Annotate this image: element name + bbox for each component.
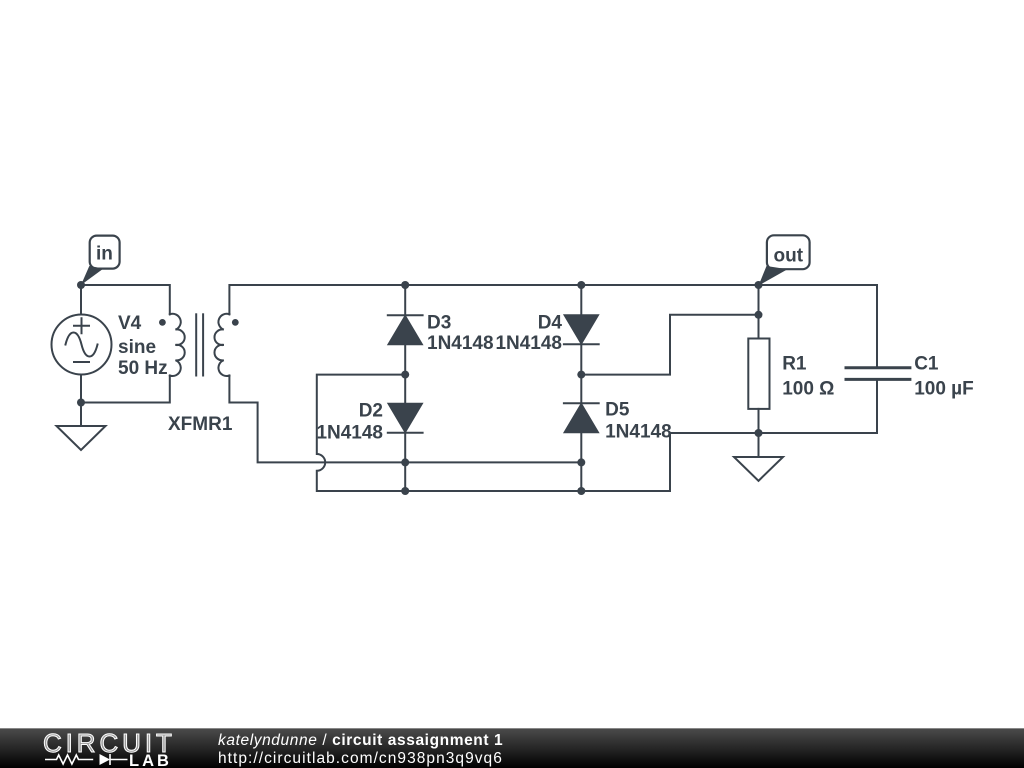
svg-text:LAB: LAB [129, 752, 172, 768]
svg-text:D3: D3 [427, 312, 451, 333]
svg-text:D4: D4 [538, 312, 563, 333]
node D5 bus1 [577, 458, 585, 466]
transformer XFMR1 [159, 314, 239, 435]
resistor R1 [748, 285, 834, 433]
svg-text:100 µF: 100 µF [914, 378, 974, 399]
wire [229, 376, 581, 463]
flag in [81, 236, 120, 285]
node V4 bottom [77, 399, 85, 407]
svg-text:sine: sine [118, 337, 156, 358]
diode D4 [495, 285, 598, 375]
node D2 bus2 [401, 487, 409, 495]
footer bar [0, 728, 1024, 768]
flag out [759, 235, 810, 285]
svg-text:R1: R1 [782, 354, 807, 375]
node D5 bus2 [577, 487, 585, 495]
svg-text:in: in [96, 244, 113, 265]
logo CIRCUIT LAB [0, 729, 200, 768]
wire [81, 376, 170, 403]
svg-text:V4: V4 [118, 313, 142, 334]
wire hop [317, 375, 877, 491]
node top D3 [401, 281, 409, 289]
node top D4 [577, 281, 585, 289]
svg-text:C1: C1 [914, 354, 939, 375]
svg-text:D2: D2 [359, 401, 383, 422]
svg-text:1N4148: 1N4148 [427, 333, 494, 354]
svg-text:1N4148: 1N4148 [605, 422, 672, 443]
svg-text:XFMR1: XFMR1 [168, 414, 233, 435]
svg-text:100 Ω: 100 Ω [782, 378, 834, 399]
node D4 D5 [577, 371, 585, 379]
node R1 top [755, 311, 763, 319]
svg-text:50 Hz: 50 Hz [118, 358, 168, 379]
wire [229, 285, 877, 314]
svg-text:1N4148: 1N4148 [316, 423, 383, 444]
ground out [734, 433, 783, 481]
node in [77, 281, 85, 289]
ground [57, 403, 106, 451]
node R1 bottom [755, 429, 763, 437]
node D2 bus1 [401, 458, 409, 466]
diode D5 [564, 375, 672, 491]
svg-text:out: out [774, 245, 804, 266]
node out [755, 281, 763, 289]
wire [81, 285, 170, 314]
voltage source V4 [52, 285, 168, 403]
svg-text:D5: D5 [605, 400, 630, 421]
node D3 D2 [401, 371, 409, 379]
wire [581, 315, 758, 375]
capacitor C1 [846, 285, 974, 433]
svg-text:1N4148: 1N4148 [495, 333, 562, 354]
diode D3 [388, 285, 494, 375]
diode D2 [316, 375, 422, 491]
